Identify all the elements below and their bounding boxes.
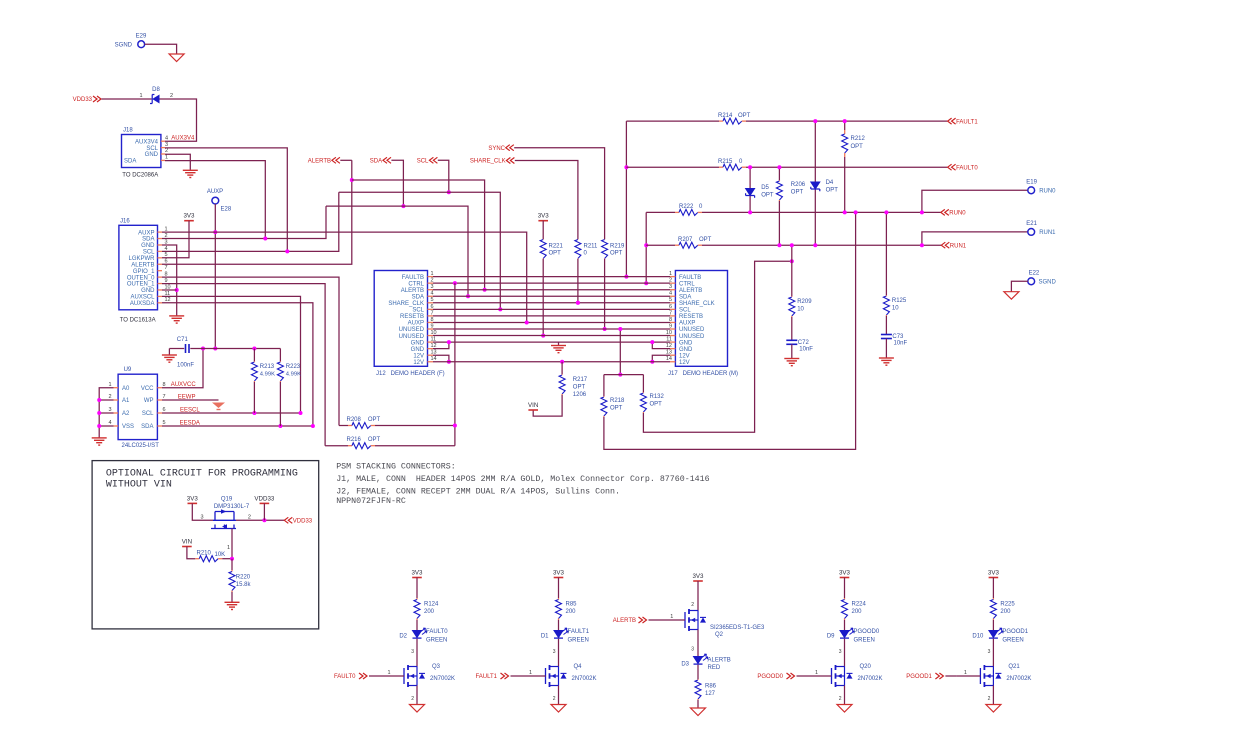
- diode D4: [811, 182, 820, 189]
- junction 12V bracket J12: [447, 360, 451, 364]
- wire ALERTB to J12 pin3: [352, 180, 485, 290]
- svg-text:R206: R206: [791, 182, 806, 188]
- svg-text:D10: D10: [972, 634, 984, 640]
- connector J18: [122, 135, 161, 168]
- svg-text:3: 3: [165, 142, 168, 148]
- resistor R218: [603, 375, 605, 396]
- svg-text:Q2: Q2: [715, 632, 724, 638]
- wire J18 GND: [165, 154, 190, 170]
- resistor R212: [844, 121, 846, 130]
- svg-text:ALERTB: ALERTB: [708, 658, 731, 664]
- node E29 terminal SGND: [138, 41, 145, 48]
- svg-text:D4: D4: [826, 180, 834, 186]
- svg-text:3: 3: [988, 649, 991, 655]
- wire bracket R218 R132: [604, 374, 644, 376]
- svg-text:D3: D3: [681, 662, 689, 668]
- wire AUX3V4 from D8 to J18 pin4: [160, 99, 197, 141]
- svg-text:D5: D5: [761, 185, 769, 191]
- svg-text:4.99K: 4.99K: [286, 372, 301, 378]
- svg-text:1: 1: [108, 382, 111, 388]
- svg-text:200: 200: [852, 609, 863, 615]
- wire D10 to Q21 pin3: [992, 639, 994, 667]
- wire U9 left pin: [99, 399, 113, 401]
- node E21 terminal: [1028, 229, 1035, 236]
- svg-text:WITHOUT VIN: WITHOUT VIN: [106, 480, 172, 491]
- svg-text:R210: R210: [197, 551, 212, 557]
- junction at pin9: [618, 327, 622, 331]
- junction GND pin10: [175, 288, 179, 292]
- ground under Q21: [986, 705, 1001, 713]
- svg-text:4: 4: [108, 420, 111, 426]
- svg-text:R223: R223: [286, 364, 301, 370]
- ground under C73: [879, 357, 894, 359]
- wire SDA label: [391, 160, 403, 206]
- svg-text:10nF: 10nF: [799, 347, 813, 353]
- resistor R222: [675, 211, 679, 213]
- ground in optional box: [225, 601, 240, 603]
- pin 13 12V of J17: [670, 354, 675, 356]
- net label RUN1: [941, 242, 949, 248]
- resistor R220: [231, 559, 233, 570]
- wire J18 SDA: [165, 161, 265, 239]
- svg-text:SCL: SCL: [146, 146, 158, 152]
- svg-text:SCL: SCL: [679, 308, 691, 314]
- svg-text:U9: U9: [124, 367, 132, 373]
- svg-text:OPT: OPT: [826, 188, 839, 194]
- transistor Q20 2N7002K: [831, 668, 833, 684]
- svg-text:SYNC: SYNC: [488, 146, 505, 152]
- svg-text:3V3: 3V3: [692, 573, 704, 580]
- wire Q3 source to ground: [416, 686, 418, 705]
- svg-text:ALERTB: ALERTB: [131, 262, 154, 268]
- svg-text:GND: GND: [145, 152, 159, 158]
- pin 4 SCL of J16: [158, 250, 163, 252]
- svg-text:1: 1: [529, 670, 532, 676]
- led D9: [840, 631, 849, 638]
- ground under R86: [691, 708, 706, 716]
- svg-text:OPT: OPT: [738, 113, 751, 119]
- svg-text:3V3: 3V3: [183, 213, 195, 220]
- svg-text:3V3: 3V3: [538, 213, 550, 220]
- svg-text:OPT: OPT: [368, 437, 381, 443]
- wire R225 to D10: [992, 620, 994, 631]
- svg-text:FAULT0: FAULT0: [956, 165, 978, 171]
- wire R216 right: [375, 445, 455, 447]
- svg-text:100nF: 100nF: [177, 363, 194, 369]
- junction ALERTB at J12 pin3: [483, 288, 487, 292]
- svg-text:3V3: 3V3: [553, 570, 565, 577]
- diode D5 branch wire: [749, 167, 751, 212]
- wire 3V3 to R224: [844, 578, 846, 599]
- pin 1 AUXP of J16: [158, 231, 163, 233]
- wire EEWP: [162, 399, 219, 401]
- wires J12-J17 pins 1-11: [433, 276, 670, 278]
- svg-text:10: 10: [797, 307, 804, 313]
- junction GND bracket J17: [650, 340, 654, 344]
- node E19 terminal: [1028, 187, 1035, 194]
- svg-text:2N7002K: 2N7002K: [430, 676, 455, 682]
- power 3V3 for R221: [538, 220, 548, 222]
- wire 3V3 to Q2: [697, 581, 699, 611]
- junction R211 at pin5: [576, 301, 580, 305]
- svg-text:SGND: SGND: [115, 42, 133, 48]
- pin 9 OUTEN_1 of J16: [158, 283, 163, 285]
- svg-text:RED: RED: [708, 665, 721, 671]
- wire 3V3 to R85: [558, 578, 560, 599]
- ground under U9 address pins: [92, 437, 107, 439]
- svg-text:D1: D1: [541, 634, 549, 640]
- svg-text:VDD33: VDD33: [73, 97, 93, 103]
- svg-text:RUN0: RUN0: [949, 211, 966, 217]
- svg-text:R212: R212: [851, 136, 866, 142]
- svg-text:15.8k: 15.8k: [236, 582, 252, 588]
- pin 10 UNUSED of J17: [670, 335, 675, 337]
- svg-text:OPT: OPT: [610, 406, 623, 412]
- svg-text:R224: R224: [852, 602, 867, 608]
- junction SDA / J18: [263, 237, 267, 241]
- svg-text:R213: R213: [260, 364, 275, 370]
- transistor Q3 2N7002K: [403, 668, 405, 684]
- junction R212 bottom: [843, 210, 847, 214]
- junction R132 path at R209: [790, 259, 794, 263]
- net label FAULT1: [948, 118, 956, 124]
- power 3V3 for Q3: [412, 577, 422, 579]
- wire AUXVCC bus: [190, 348, 280, 350]
- junction R206 top: [777, 165, 781, 169]
- pin 7 GPIO_1 of J16: [158, 270, 163, 272]
- wire ALERTB label: [340, 159, 352, 161]
- junction GND bracket J12: [447, 340, 451, 344]
- junction: [213, 347, 217, 351]
- svg-text:SHARE_CLK: SHARE_CLK: [388, 301, 424, 307]
- wire ALERTB net J16 pin6: [162, 160, 352, 264]
- svg-text:UNUSED: UNUSED: [399, 334, 425, 340]
- pin 10 GND of J16: [158, 289, 163, 291]
- svg-text:CTRL: CTRL: [408, 281, 424, 287]
- resistor R214: [719, 120, 723, 122]
- power 3V3 for Q21: [989, 577, 999, 579]
- resistor R125: [885, 295, 887, 296]
- pin 14 12V of J12: [428, 361, 434, 363]
- ground on GND net: [558, 342, 560, 345]
- svg-text:R209: R209: [797, 299, 812, 305]
- wire D9 to Q20 pin3: [844, 639, 846, 667]
- svg-text:OPT: OPT: [610, 251, 623, 257]
- svg-text:2N7002K: 2N7002K: [572, 676, 597, 682]
- wire gate Q2: [649, 619, 686, 621]
- wire J12 pin12 GND bracket: [433, 342, 449, 349]
- ground under Q20: [837, 705, 852, 713]
- svg-text:2N7002K: 2N7002K: [858, 676, 883, 682]
- wire C71 left to ground: [169, 348, 184, 350]
- junction AUXVCC at C71 line: [201, 347, 205, 351]
- pin 13 12V of J12: [428, 354, 434, 356]
- transistor Q21 2N7002K: [979, 668, 981, 684]
- svg-text:2N7002K: 2N7002K: [1006, 676, 1031, 682]
- junction D4 bottom: [813, 243, 817, 247]
- junction VDD33: [262, 518, 266, 522]
- junction E21 at RUN1: [920, 243, 924, 247]
- junction 12V bracket J17: [650, 360, 654, 364]
- svg-text:LGKPWR: LGKPWR: [128, 256, 155, 262]
- svg-text:5: 5: [162, 420, 165, 426]
- pin 9 UNUSED of J17: [670, 328, 675, 330]
- junction E19 at RUN0: [920, 210, 924, 214]
- svg-text:GREEN: GREEN: [426, 638, 447, 644]
- pin 1 A0 of U9: [114, 387, 119, 389]
- svg-text:J17 DEMO HEADER (M): J17 DEMO HEADER (M): [668, 371, 738, 377]
- svg-text:FAULTB: FAULTB: [679, 275, 701, 281]
- power 3V3 in optional box: [188, 502, 198, 504]
- svg-text:FAULT0: FAULT0: [334, 674, 356, 680]
- wire R208 line: [339, 425, 348, 427]
- pin 7 RESETB of J12: [428, 315, 434, 317]
- svg-text:7: 7: [165, 265, 168, 271]
- resistor R224: [844, 598, 846, 600]
- svg-text:VIN: VIN: [528, 402, 538, 409]
- svg-text:E22: E22: [1029, 270, 1040, 276]
- svg-text:FAULT1: FAULT1: [956, 119, 978, 125]
- ground EEWP filled: [212, 403, 225, 409]
- svg-text:3: 3: [200, 514, 203, 520]
- junction D5 bottom: [748, 210, 752, 214]
- led D1: [554, 631, 563, 638]
- wire gate Q21: [945, 675, 956, 677]
- wire U9 left pin: [99, 412, 113, 414]
- wire R213 bottom: [253, 382, 255, 413]
- svg-text:3V3: 3V3: [411, 570, 423, 577]
- resistor R225: [992, 598, 994, 600]
- resistor R221: [542, 238, 544, 241]
- svg-text:OUTEN_0: OUTEN_0: [127, 275, 155, 281]
- wire E19 to RUN0: [922, 190, 1028, 212]
- wire RUN1 line: [646, 244, 675, 246]
- wire gate Q4: [511, 675, 522, 677]
- ground at E22: [1004, 292, 1019, 300]
- resistor R215: [719, 166, 723, 168]
- junction R213 at EESCL: [252, 411, 256, 415]
- pin 6 ALERTB of J16: [158, 263, 163, 265]
- svg-text:E29: E29: [136, 34, 147, 40]
- svg-text:200: 200: [1000, 609, 1011, 615]
- wire R125 branch from RUN0: [885, 212, 887, 295]
- svg-text:R220: R220: [236, 575, 251, 581]
- svg-text:1: 1: [815, 670, 818, 676]
- svg-text:2: 2: [988, 696, 991, 702]
- svg-text:SDA: SDA: [142, 237, 154, 243]
- wire VDD33 to D8: [102, 98, 152, 100]
- svg-text:GREEN: GREEN: [1002, 638, 1023, 644]
- svg-text:3: 3: [553, 649, 556, 655]
- svg-text:R124: R124: [424, 602, 439, 608]
- wire R223 bottom: [279, 382, 281, 426]
- svg-text:D8: D8: [152, 87, 160, 93]
- svg-text:A1: A1: [122, 398, 130, 404]
- svg-text:R215: R215: [718, 159, 733, 165]
- ic U9 24LC025: [118, 374, 157, 439]
- svg-text:E21: E21: [1026, 221, 1037, 227]
- pin 2 SDA of J16: [158, 238, 163, 240]
- svg-text:R132: R132: [650, 394, 665, 400]
- svg-text:VDD33: VDD33: [254, 495, 275, 502]
- net label FAULT0: [948, 164, 956, 170]
- pin 1 FAULTB of J12: [428, 276, 434, 278]
- wire SYNC to R219: [514, 148, 604, 239]
- svg-text:J12 DEMO HEADER (F): J12 DEMO HEADER (F): [376, 371, 445, 377]
- wire OUTEN_0 J16 pin8 to R208: [162, 277, 339, 425]
- svg-text:VSS: VSS: [122, 424, 134, 430]
- pin 8 VCC of U9: [157, 387, 162, 389]
- svg-text:CTRL: CTRL: [679, 281, 695, 287]
- resistor R206 branch wire top: [778, 167, 780, 180]
- capacitor C71: [185, 344, 187, 353]
- svg-text:4: 4: [165, 135, 168, 141]
- wire FAULT0 line right: [746, 166, 947, 168]
- resistor R217 from 12V: [560, 360, 564, 364]
- svg-text:ALERTB: ALERTB: [613, 618, 636, 624]
- pin 14 12V of J17: [670, 361, 675, 363]
- junction R218 path at RUN0: [854, 210, 858, 214]
- svg-text:10nF: 10nF: [894, 341, 908, 347]
- wire R124 to D2: [416, 620, 418, 631]
- wire U9 address pins to ground: [99, 388, 113, 438]
- svg-text:GREEN: GREEN: [854, 638, 875, 644]
- svg-text:3: 3: [691, 647, 694, 653]
- transistor Q4 2N7002K: [545, 668, 547, 684]
- svg-text:UNUSED: UNUSED: [679, 327, 705, 333]
- svg-text:AUXSCL: AUXSCL: [130, 295, 155, 301]
- wire D1 to Q4 pin3: [558, 639, 560, 667]
- pin 4 SDA of J12: [428, 295, 434, 297]
- ground under Q3: [410, 705, 425, 713]
- diode D4 branch wire: [814, 121, 816, 245]
- svg-text:OPT: OPT: [791, 190, 804, 196]
- pin 3 GND of J16: [158, 244, 163, 246]
- power 3V3 for Q4: [554, 577, 564, 579]
- wire 3V3 to J16 pin5: [162, 221, 189, 258]
- svg-text:AUXP: AUXP: [408, 321, 424, 327]
- wire D2 to Q3 pin3: [416, 639, 418, 667]
- junction D5 top: [748, 165, 752, 169]
- svg-text:ALERTB: ALERTB: [679, 288, 702, 294]
- svg-text:SCL: SCL: [412, 308, 424, 314]
- svg-text:AUXP: AUXP: [207, 189, 223, 195]
- svg-text:R217: R217: [573, 377, 588, 383]
- wire GND J16 pin10: [162, 289, 177, 291]
- wire AUXP net J16 pin1 to J12 pin8: [162, 232, 527, 322]
- svg-text:R221: R221: [549, 244, 564, 250]
- diode D5: [746, 189, 755, 196]
- svg-text:1: 1: [139, 93, 142, 99]
- svg-text:3: 3: [108, 407, 111, 413]
- svg-text:RUN1: RUN1: [950, 243, 967, 249]
- svg-text:R125: R125: [892, 298, 907, 304]
- wire Q19 gate down: [231, 529, 233, 559]
- svg-text:2: 2: [839, 696, 842, 702]
- svg-text:VDD33: VDD33: [293, 519, 313, 525]
- wire Q20 source to ground: [844, 686, 846, 705]
- wire 3V3 to Q19 source: [192, 503, 213, 520]
- svg-text:RESETB: RESETB: [679, 314, 703, 320]
- pin 2 CTRL of J12: [428, 282, 434, 284]
- led D3: [694, 657, 703, 664]
- wire 3V3 to R221: [542, 221, 544, 239]
- pin 5 SDA of U9: [157, 425, 162, 427]
- junction AUXP at J12 pin8: [525, 320, 529, 324]
- wire GND J16 pin3: [162, 245, 177, 316]
- svg-text:GREEN: GREEN: [568, 638, 589, 644]
- pin 4 VSS of U9: [114, 425, 119, 427]
- svg-text:12V: 12V: [679, 353, 690, 359]
- svg-text:SCL: SCL: [417, 159, 429, 165]
- wire R125 to C73: [885, 316, 887, 335]
- ground under C72: [784, 358, 799, 360]
- junction FAULTB at J12 pin1: [624, 275, 628, 279]
- pin 12 GND of J12: [428, 348, 434, 350]
- junction ALERTB tee: [350, 178, 354, 182]
- svg-text:SI2365EDS-T1-GE3: SI2365EDS-T1-GE3: [710, 625, 765, 631]
- ground under Q4: [551, 705, 566, 713]
- resistor R210: [195, 558, 199, 560]
- wire SGND: [145, 44, 177, 54]
- svg-text:Q3: Q3: [432, 664, 441, 670]
- svg-text:1: 1: [387, 670, 390, 676]
- pin 4 AUX3V4 of J18: [161, 140, 165, 142]
- svg-text:3V3: 3V3: [988, 570, 1000, 577]
- svg-text:24LC025-I/ST: 24LC025-I/ST: [122, 443, 160, 449]
- svg-text:PSM STACKING CONNECTORS:: PSM STACKING CONNECTORS:: [336, 462, 456, 471]
- svg-text:2: 2: [108, 394, 111, 400]
- pin 10 UNUSED of J12: [428, 335, 434, 337]
- svg-text:RUN0: RUN0: [1039, 189, 1056, 195]
- svg-text:OPT: OPT: [761, 193, 774, 199]
- junction AUXSCL at EESCL: [299, 411, 303, 415]
- wire RUN vertical to CTRL: [645, 212, 647, 283]
- svg-text:J2, FEMALE, CONN RECEPT 2MM DU: J2, FEMALE, CONN RECEPT 2MM DUAL R/A 14P…: [336, 486, 620, 496]
- ground under J16: [169, 315, 184, 317]
- transistor Q19 DMP3130L-7: [215, 511, 234, 513]
- wire 3V3 to R124: [416, 578, 418, 599]
- svg-text:AUXP: AUXP: [138, 230, 154, 236]
- svg-text:D2: D2: [399, 634, 407, 640]
- junction SDA tee: [401, 204, 405, 208]
- power VIN: [528, 409, 538, 411]
- junction R209 at RUN1: [790, 243, 794, 247]
- svg-text:NPPN072FJFN-RC: NPPN072FJFN-RC: [336, 497, 406, 506]
- junction R210 R220 gate: [230, 557, 234, 561]
- svg-text:PGOOD0: PGOOD0: [854, 629, 880, 635]
- svg-text:OPTIONAL CIRCUIT FOR PROGRAMMI: OPTIONAL CIRCUIT FOR PROGRAMMING: [106, 469, 298, 480]
- svg-text:J1, MALE, CONN HEADER 14POS 2: J1, MALE, CONN HEADER 14POS 2MM R/A GOLD…: [336, 474, 709, 484]
- svg-text:WP: WP: [144, 398, 154, 404]
- svg-text:C72: C72: [798, 340, 810, 346]
- pin 9 UNUSED of J12: [428, 328, 434, 330]
- svg-text:GND: GND: [411, 347, 425, 353]
- resistor R209: [791, 296, 793, 297]
- junction SDA at J12 pin4: [466, 294, 470, 298]
- svg-text:1: 1: [964, 670, 967, 676]
- capacitor C73: [881, 334, 892, 336]
- power VDD33 in optional box: [260, 502, 270, 504]
- wire SHARE_CLK to R211: [515, 161, 578, 240]
- node E22 terminal: [1028, 278, 1035, 285]
- svg-text:VCC: VCC: [141, 386, 154, 392]
- svg-text:SHARE_CLK: SHARE_CLK: [679, 301, 715, 307]
- svg-text:RESETB: RESETB: [400, 314, 424, 320]
- capacitor C72: [786, 339, 797, 341]
- svg-text:GPIO_1: GPIO_1: [133, 269, 155, 275]
- svg-text:R86: R86: [705, 684, 717, 690]
